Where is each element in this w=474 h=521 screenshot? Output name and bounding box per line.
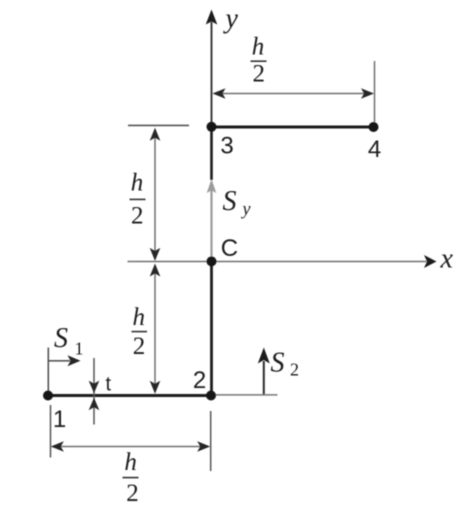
svg-text:2: 2	[193, 367, 206, 394]
svg-text:h: h	[252, 34, 265, 61]
svg-text:1: 1	[53, 406, 66, 433]
svg-text:S: S	[54, 323, 68, 354]
svg-text:2: 2	[253, 61, 266, 88]
svg-text:3: 3	[220, 133, 233, 160]
svg-text:C: C	[221, 235, 238, 262]
svg-text:2: 2	[133, 333, 146, 360]
svg-text:4: 4	[368, 136, 381, 163]
svg-text:S: S	[223, 186, 237, 217]
svg-text:h: h	[133, 304, 146, 331]
svg-text:2: 2	[126, 480, 139, 507]
svg-text:h: h	[131, 170, 144, 197]
svg-text:t: t	[106, 374, 112, 396]
svg-text:1: 1	[75, 339, 84, 359]
svg-text:2: 2	[290, 360, 299, 380]
svg-text:x: x	[440, 244, 454, 275]
svg-text:y: y	[241, 199, 251, 219]
svg-text:h: h	[124, 449, 137, 476]
svg-text:2: 2	[131, 203, 144, 230]
svg-text:S: S	[271, 348, 285, 379]
svg-text:y: y	[223, 4, 239, 35]
